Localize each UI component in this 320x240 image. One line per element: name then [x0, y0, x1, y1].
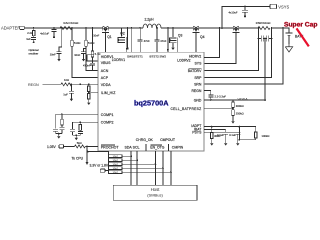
- wire VBUS: [93, 57, 99, 61]
- svg-text:bq25700A: bq25700A: [134, 98, 169, 107]
- wire SW2 to pin: [167, 27, 169, 29]
- svg-text:Super Cap: Super Cap: [284, 21, 317, 28]
- svg-text:CMPOUT: CMPOUT: [160, 138, 176, 142]
- capacitor 0.1uF PSYS: [235, 132, 240, 141]
- svg-text:470nF: 470nF: [83, 63, 91, 67]
- wire COMP2: [72, 122, 98, 129]
- annotation red arrow: [297, 28, 309, 46]
- wire SYS pin to rail: [204, 28, 219, 58]
- svg-text:VDDA: VDDA: [101, 83, 111, 87]
- wire PROCHOT pullup link: [88, 152, 109, 155]
- wire BATDRV gate: [204, 32, 236, 63]
- resistor 10ohm: [61, 83, 72, 86]
- svg-text:10kΩ: 10kΩ: [112, 163, 118, 166]
- wire ILIM_HIZ tap: [88, 91, 90, 93]
- svg-text:HIDRV2: HIDRV2: [189, 54, 201, 58]
- svg-text:Q4: Q4: [200, 35, 205, 39]
- connector VSYS: [270, 4, 277, 8]
- wire PROCHOT pin: [85, 145, 98, 147]
- svg-text:10nF: 10nF: [50, 53, 56, 57]
- wire IADPT: [204, 126, 256, 128]
- svg-text:10kΩ: 10kΩ: [112, 167, 118, 170]
- svg-text:R AC=10mΩ: R AC=10mΩ: [64, 21, 79, 25]
- wire rail to battery: [272, 28, 289, 33]
- svg-text:CHRG_OK: CHRG_OK: [136, 138, 154, 142]
- capacitor sense filter right: [267, 36, 272, 42]
- wire REGN to VDDA: [43, 83, 62, 85]
- svg-text:250kΩ: 250kΩ: [236, 111, 244, 115]
- wire COMP1 join + ground: [56, 133, 62, 135]
- transistor Q5 BATFET: [232, 26, 240, 32]
- capacitor 47nF BTST2 bootstrap: [156, 27, 158, 29]
- svg-text:ADAPTER: ADAPTER: [1, 26, 20, 31]
- connector ADAPTER: [20, 26, 25, 29]
- wire REGN: [204, 90, 211, 94]
- ground battery return: [285, 44, 292, 52]
- svg-text:VDDA: VDDA: [238, 98, 249, 102]
- resistor 10k pullup CMPOUT: [122, 171, 171, 173]
- svg-text:COMP1: COMP1: [101, 113, 114, 117]
- wire VBUS filter loop: [87, 55, 93, 61]
- host block: [113, 185, 197, 200]
- svg-text:510Ω: 510Ω: [88, 41, 95, 45]
- wire CHRG_OK bus: [155, 151, 157, 185]
- svg-text:ACN: ACN: [101, 69, 109, 73]
- svg-text:COMP2: COMP2: [101, 121, 114, 125]
- wire SW1 rail: [110, 27, 144, 29]
- wire 3.3V rail: [105, 154, 109, 172]
- svg-text:2.2Ω: 2.2Ω: [27, 31, 33, 35]
- capacitor 47nF BTST1 bootstrap: [139, 27, 141, 29]
- resistor COMP2 b: [79, 122, 81, 124]
- capacitor 470nF VBUS: [90, 61, 95, 70]
- svg-text:Optional: Optional: [29, 48, 39, 52]
- svg-text:VSYS: VSYS: [278, 5, 289, 10]
- wire HIDRV1 gate: [105, 32, 107, 52]
- svg-text:47nF: 47nF: [160, 39, 166, 43]
- capacitor sense filter left: [259, 36, 267, 42]
- svg-text:GND: GND: [194, 99, 202, 103]
- wire rail to RSR: [240, 27, 258, 29]
- connector 3.3V: [100, 169, 105, 172]
- wire SDA bus: [130, 151, 132, 185]
- svg-text:4x10uF: 4x10uF: [229, 10, 238, 14]
- capacitor COMP1 a: [53, 129, 58, 133]
- resistor 10k pullup PROCHOT: [122, 155, 131, 157]
- svg-text:10Ω: 10Ω: [64, 78, 69, 82]
- resistor 300k: [232, 102, 235, 108]
- resistor 250k: [232, 110, 235, 116]
- capacitor 1uF VDDA: [69, 84, 74, 96]
- node junction input: [33, 27, 35, 29]
- svg-text:Q3: Q3: [178, 33, 183, 37]
- svg-text:510Ω: 510Ω: [74, 41, 81, 45]
- wire CELL_BATPRESZ: [204, 107, 233, 109]
- svg-text:0.1uF: 0.1uF: [229, 133, 236, 137]
- svg-text:5kΩ: 5kΩ: [77, 141, 82, 145]
- svg-text:snubber: snubber: [29, 51, 39, 55]
- svg-text:47nF: 47nF: [144, 39, 150, 43]
- svg-text:SRP: SRP: [194, 76, 202, 80]
- capacitor COMP2 b: [78, 130, 83, 135]
- wire SRN sense: [204, 28, 271, 78]
- resistor 510 ohm ACN: [85, 27, 87, 29]
- resistor 100k loop: [239, 126, 241, 128]
- capacitor 2.2-3.3uF REGN: [208, 95, 213, 100]
- svg-text:BTST2: BTST2: [150, 54, 160, 58]
- battery BATT supercap: [286, 33, 293, 44]
- svg-text:REGN: REGN: [191, 89, 201, 93]
- capacitor 4x10uF input: [53, 27, 55, 29]
- svg-text:R SR=10mΩ: R SR=10mΩ: [256, 21, 271, 25]
- resistor 10k pullup SDA: [122, 159, 137, 161]
- wire + capacitor 10nF (ACP filter cap): [61, 27, 63, 29]
- resistor 5.1 ohm VBUS filter: [92, 27, 94, 29]
- svg-text:To CPU: To CPU: [72, 156, 84, 160]
- svg-text:SRN: SRN: [194, 82, 202, 86]
- svg-text:10nF: 10nF: [74, 53, 80, 57]
- resistor 10k pullup CHRG_OK: [122, 167, 163, 169]
- resistor ILIM divider bottom: [88, 94, 91, 100]
- svg-text:ILIM_HIZ: ILIM_HIZ: [101, 91, 116, 95]
- wire to resistor: [64, 145, 75, 147]
- resistor 10k pullup SCL: [122, 163, 156, 165]
- wire To CPU: [86, 146, 88, 162]
- svg-text:LODRV1: LODRV1: [112, 58, 125, 62]
- wire VSYS riser: [222, 7, 270, 29]
- svg-text:PSYS: PSYS: [192, 131, 202, 135]
- wire PSYS: [204, 131, 238, 133]
- wire LODRV2 gate: [177, 43, 179, 52]
- wire IBAT: [204, 128, 226, 130]
- svg-text:BATDRV: BATDRV: [188, 69, 202, 73]
- capacitor COMP2 a: [70, 130, 75, 136]
- wire SCL bus: [136, 151, 138, 185]
- svg-text:10kΩ: 10kΩ: [112, 171, 118, 174]
- resistor 510 ohm ACP: [71, 27, 73, 29]
- wire SRP sense: [204, 28, 258, 71]
- op-amp U1 bq25700A charge controller body: [98, 52, 204, 151]
- resistor 30k IADPT: [211, 127, 213, 133]
- wire EN_OTG bus: [162, 151, 164, 185]
- wire ACN to pin: [86, 46, 98, 70]
- resistor R snubber 2.2ohm: [33, 28, 35, 31]
- svg-text:Q1: Q1: [107, 35, 112, 39]
- svg-text:PROCHOT: PROCHOT: [101, 146, 120, 150]
- ground: [57, 57, 60, 62]
- wire input rail: [24, 27, 101, 29]
- capacitor 1uF snubber: [31, 36, 36, 42]
- svg-text:SDA SCL: SDA SCL: [125, 146, 140, 150]
- svg-text:1uF: 1uF: [26, 37, 31, 41]
- svg-text:1.05V: 1.05V: [47, 145, 57, 149]
- wire GND line: [204, 99, 265, 101]
- wire LODRV1 gate: [125, 43, 127, 52]
- svg-text:CMPIN: CMPIN: [172, 146, 184, 150]
- transistor Q2 (low-side FET phase 1): [118, 28, 126, 43]
- resistor 5k PROCHOT: [75, 145, 86, 148]
- svg-text:ACP: ACP: [101, 76, 109, 80]
- connector 1.05V: [59, 145, 64, 148]
- svg-text:1uF: 1uF: [63, 93, 68, 97]
- wire HIDRV2 gate: [195, 32, 197, 52]
- wire SW1 to pin: [131, 27, 133, 29]
- ground Q3 source: [172, 43, 174, 46]
- svg-text:CELL_BATPRESZ: CELL_BATPRESZ: [171, 107, 202, 111]
- svg-text:REGN: REGN: [28, 83, 39, 87]
- svg-text:2.2µH: 2.2µH: [145, 18, 155, 22]
- wire SW2 rail to Q4: [161, 27, 192, 29]
- transistor Q1 (input high-side FET): [102, 26, 112, 39]
- svg-text:LODRV2: LODRV2: [177, 58, 190, 62]
- resistor ILIM divider top: [88, 83, 90, 85]
- wire SYS rail: [200, 27, 232, 29]
- svg-text:100kΩ: 100kΩ: [262, 134, 270, 138]
- resistor COMP1 b: [61, 114, 63, 119]
- transistor Q4 (high-side FET output): [192, 26, 205, 39]
- capacitor 10nF ACN: [81, 49, 86, 57]
- wire CMPOUT bus: [170, 151, 172, 185]
- placeholder-left2: [87, 151, 197, 201]
- ground divider: [232, 115, 234, 119]
- svg-text:Q2: Q2: [120, 32, 125, 36]
- wire ACP to pin: [72, 46, 98, 77]
- svg-text:10kΩ: 10kΩ: [112, 159, 118, 162]
- wire BATT sense line: [204, 28, 283, 84]
- placeholder-right2: [28, 78, 98, 165]
- svg-text:0.1uF: 0.1uF: [217, 133, 224, 137]
- wire Q2 source return: [127, 27, 129, 29]
- svg-text:SW1BTST1: SW1BTST1: [127, 54, 143, 58]
- svg-text:SW2: SW2: [160, 54, 167, 58]
- wire filter mid to gnd: [264, 38, 266, 40]
- svg-text:4x10uF: 4x10uF: [40, 31, 49, 35]
- svg-text:EN_OTG: EN_OTG: [150, 146, 164, 150]
- wire COMP2 join + ground: [72, 134, 80, 136]
- svg-text:300kΩ: 300kΩ: [236, 104, 244, 108]
- svg-text:3.3V or 1.8V: 3.3V or 1.8V: [90, 163, 109, 167]
- svg-text:10nF: 10nF: [93, 33, 99, 37]
- capacitor 0.1uF IBAT: [223, 129, 228, 141]
- svg-text:2.2-3.3uF: 2.2-3.3uF: [215, 95, 227, 99]
- transistor Q3 (low-side FET phase 2): [172, 27, 174, 29]
- capacitor COMP1 b: [60, 125, 65, 134]
- svg-text:10kΩ: 10kΩ: [112, 155, 118, 158]
- capacitor 4x10uF sys: [244, 6, 246, 8]
- svg-text:(SMBus): (SMBus): [147, 192, 163, 197]
- svg-text:SYS: SYS: [195, 61, 203, 65]
- svg-text:VBUS: VBUS: [101, 61, 111, 65]
- wire COMP1: [56, 114, 98, 129]
